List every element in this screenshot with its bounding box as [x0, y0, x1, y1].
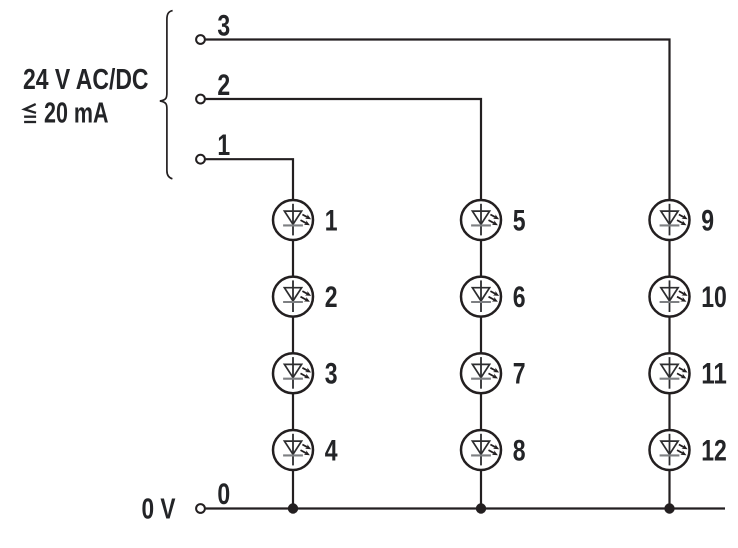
terminal 3 (open circle) [196, 35, 205, 44]
svg-text:3: 3 [217, 9, 230, 42]
svg-text:0: 0 [217, 478, 230, 511]
wire: 0 V bus [206, 507, 725, 509]
svg-text:24 V AC/DC: 24 V AC/DC [23, 63, 149, 95]
wire: terminal 3 feed, right then down to LED column [206, 40, 670, 202]
LED 12 [650, 430, 690, 470]
LED 5 [461, 200, 501, 240]
svg-text:9: 9 [701, 204, 714, 237]
svg-text:0 V: 0 V [142, 493, 176, 525]
brace grouping supply terminals [160, 11, 173, 179]
svg-text:1: 1 [217, 129, 230, 162]
svg-text:12: 12 [701, 434, 727, 467]
wire: LED column 2 vertical [480, 201, 482, 509]
terminal 1 (open circle) [196, 155, 205, 164]
LED 1 [273, 200, 313, 240]
LED 6 [461, 277, 501, 317]
svg-text:2: 2 [217, 69, 230, 102]
svg-text:3: 3 [325, 358, 338, 391]
junction: column 1 to 0 V bus [288, 503, 298, 513]
LED 8 [461, 430, 501, 470]
svg-text:10: 10 [701, 281, 727, 314]
terminal 2 (open circle) [196, 95, 205, 104]
svg-text:7: 7 [513, 358, 526, 391]
junction: column 2 to 0 V bus [476, 503, 486, 513]
wire: LED column 1 vertical [292, 201, 294, 509]
svg-text:11: 11 [701, 358, 727, 391]
svg-text:8: 8 [513, 434, 526, 467]
svg-text:5: 5 [513, 204, 526, 237]
LED 4 [273, 430, 313, 470]
less-than-or-equal symbol (drawn) [24, 104, 36, 122]
svg-text:4: 4 [325, 434, 338, 467]
LED 10 [650, 277, 690, 317]
terminal 0 (open circle) [196, 504, 205, 513]
LED 7 [461, 353, 501, 393]
LED 11 [650, 353, 690, 393]
junction: column 3 to 0 V bus [664, 503, 674, 513]
LED 3 [273, 353, 313, 393]
LED 2 [273, 277, 313, 317]
svg-text:1: 1 [325, 204, 338, 237]
svg-text:2: 2 [325, 281, 338, 314]
wire: terminal 1 feed, right then down to LED column [206, 159, 293, 201]
LED 9 [650, 200, 690, 240]
wire: terminal 2 feed, right then down to LED column [206, 99, 481, 201]
svg-text:20 mA: 20 mA [44, 97, 109, 129]
svg-text:6: 6 [513, 281, 526, 314]
wire: LED column 3 vertical [668, 201, 670, 509]
